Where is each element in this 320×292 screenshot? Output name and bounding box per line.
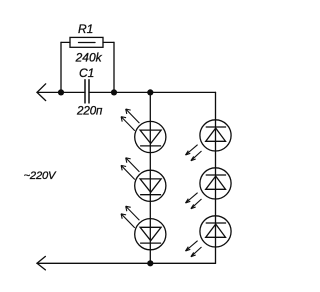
svg-text:220п: 220п [76,104,103,117]
svg-text:240k: 240k [75,50,103,64]
svg-text:C1: C1 [79,66,94,80]
svg-text:~220V: ~220V [24,170,57,182]
svg-text:R1: R1 [78,22,93,36]
